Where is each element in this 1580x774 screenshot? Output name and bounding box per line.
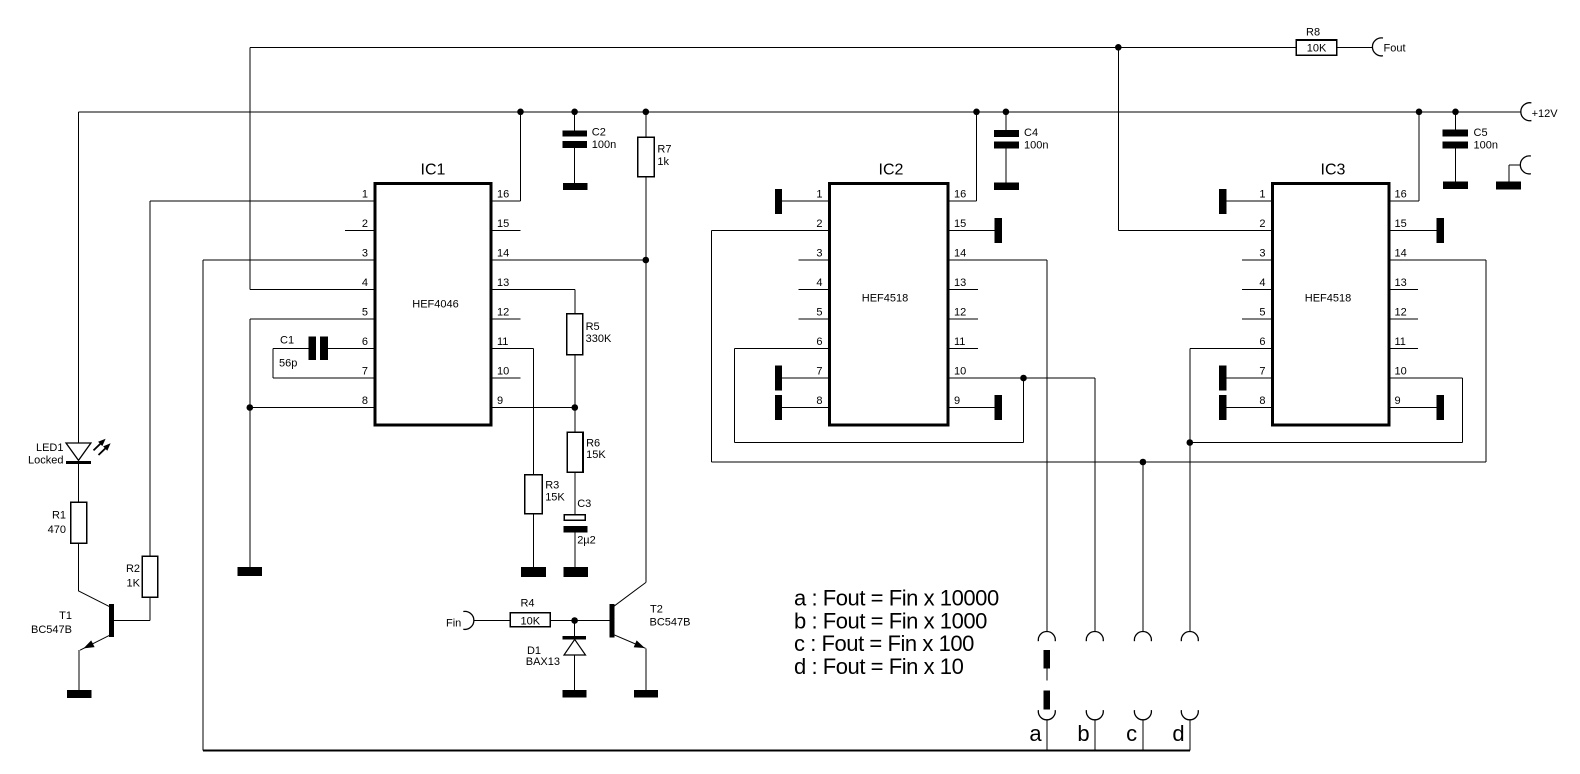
wire R7 to T2 collector bbox=[645, 178, 647, 583]
svg-text:2: 2 bbox=[816, 218, 822, 230]
resistor R8 bbox=[1296, 40, 1337, 55]
svg-text:BAX13: BAX13 bbox=[526, 656, 560, 668]
svg-text:IC3: IC3 bbox=[1321, 162, 1346, 179]
svg-text:13: 13 bbox=[497, 277, 509, 289]
wire IC2 pin7 bbox=[782, 377, 828, 379]
node rail / IC2 pin16 bbox=[973, 109, 980, 116]
svg-text:T1: T1 bbox=[59, 610, 72, 622]
IC3 pin7 tie bar bbox=[1219, 366, 1227, 391]
ground C3 bbox=[563, 567, 588, 577]
LED1 bbox=[66, 443, 91, 460]
svg-text:3: 3 bbox=[816, 248, 822, 260]
svg-text:1: 1 bbox=[362, 189, 368, 201]
wire rail to LED1 bbox=[77, 112, 79, 443]
node IC1 pin8 ground junction bbox=[247, 404, 254, 411]
svg-text:1: 1 bbox=[1259, 189, 1265, 201]
IC2 pin 13 stub bbox=[950, 289, 979, 291]
svg-text:b : Fout = Fin x 1000: b : Fout = Fin x 1000 bbox=[794, 608, 987, 633]
wire IC2 pin2 cascade net bbox=[711, 230, 828, 232]
wire terminal a to bottom rail bbox=[1046, 720, 1048, 751]
svg-text:12: 12 bbox=[1395, 307, 1407, 319]
svg-text:10K: 10K bbox=[1307, 43, 1327, 55]
wire IC2 pin6 feedback loop bbox=[734, 348, 828, 350]
svg-text:14: 14 bbox=[1395, 248, 1407, 260]
wire LED1 to R1 bbox=[77, 464, 79, 501]
wire IC2 pin10 to selector b bbox=[950, 377, 1095, 379]
svg-text:Locked: Locked bbox=[28, 455, 63, 467]
svg-text:b: b bbox=[1077, 721, 1089, 746]
wire IC3 pin16 to rail bbox=[1391, 200, 1420, 202]
terminal c upper socket bbox=[1134, 631, 1151, 641]
wire IC1 pin5 to ground bbox=[250, 318, 374, 320]
svg-text:R5: R5 bbox=[586, 321, 600, 333]
svg-text:3: 3 bbox=[362, 248, 368, 260]
wire GND terminal to ground bbox=[1509, 164, 1521, 166]
wire IC3 pin14 from cascade net bbox=[1391, 259, 1487, 261]
IC2 pin9 tie bar bbox=[995, 395, 1002, 420]
wire IC3 pin15 to tie bar bbox=[1391, 230, 1437, 232]
svg-text:16: 16 bbox=[497, 189, 509, 201]
wire R4 to T2 base bbox=[551, 620, 610, 622]
wire C1 right plate to IC1 pin6 bbox=[328, 348, 374, 350]
IC3 pin 4 stub bbox=[1242, 289, 1271, 291]
terminal GND input bbox=[1520, 156, 1531, 174]
wire terminal d to bottom rail bbox=[1189, 720, 1191, 751]
IC1 pin 10 stub bbox=[493, 377, 521, 379]
terminal a lower socket bbox=[1038, 710, 1055, 720]
wire IC3 pin7 bbox=[1227, 377, 1272, 379]
svg-text:10: 10 bbox=[497, 366, 509, 378]
svg-text:3: 3 bbox=[1259, 248, 1265, 260]
wire Fin to R4 bbox=[474, 620, 510, 622]
svg-text:10: 10 bbox=[1395, 366, 1407, 378]
IC2 pin 3 stub bbox=[799, 259, 829, 261]
capacitor C5 100n bbox=[1455, 112, 1457, 130]
svg-text:a: a bbox=[1029, 721, 1042, 746]
node R4 / D1 / T2 base bbox=[571, 617, 578, 624]
wire IC2 pin1 bbox=[782, 200, 828, 202]
svg-text:12: 12 bbox=[954, 307, 966, 319]
svg-text:BC547B: BC547B bbox=[31, 624, 72, 636]
IC1 pin 2 stub bbox=[345, 230, 374, 232]
svg-text:13: 13 bbox=[1395, 277, 1407, 289]
ground D1 bbox=[563, 690, 587, 698]
svg-text:1k: 1k bbox=[657, 156, 669, 168]
svg-text:15: 15 bbox=[497, 218, 509, 230]
chip IC3 HEF4518 bbox=[1273, 184, 1390, 426]
transistor T1 bbox=[109, 604, 114, 637]
resistor R7 bbox=[638, 137, 654, 177]
svg-text:56p: 56p bbox=[279, 357, 297, 369]
svg-text:R2: R2 bbox=[126, 563, 140, 575]
svg-text:11: 11 bbox=[1395, 336, 1406, 348]
wire bottom selector rail bbox=[203, 750, 1190, 752]
svg-text:IC1: IC1 bbox=[421, 162, 446, 179]
svg-text:Fin: Fin bbox=[446, 617, 461, 629]
svg-text:C1: C1 bbox=[280, 334, 294, 346]
ground R3 bbox=[521, 567, 546, 577]
svg-text:7: 7 bbox=[1259, 366, 1265, 378]
capacitor C4 100n bbox=[1005, 112, 1007, 130]
wire branch down to IC3 pin2 bbox=[1117, 47, 1119, 230]
node rail / C2 bbox=[571, 109, 578, 116]
svg-text:C3: C3 bbox=[577, 498, 591, 510]
wire C3 to ground bbox=[574, 533, 576, 567]
svg-text:10: 10 bbox=[954, 366, 966, 378]
node IC3 pin6 / feedback / selector d bbox=[1187, 439, 1194, 446]
terminal d upper socket bbox=[1181, 631, 1198, 641]
wire C1 left plate loop to IC1 pin7 bbox=[273, 348, 308, 350]
svg-text:R1: R1 bbox=[52, 510, 66, 522]
svg-text:14: 14 bbox=[497, 248, 509, 260]
svg-text:2: 2 bbox=[1259, 218, 1265, 230]
wire node to R6 bbox=[574, 408, 576, 432]
wire selector c drop bbox=[1142, 462, 1144, 632]
wire IC3 pin10 feedback loop bbox=[1391, 377, 1463, 379]
svg-text:6: 6 bbox=[816, 336, 822, 348]
wire R8 to Fout bbox=[1338, 46, 1373, 48]
svg-text:d: d bbox=[1172, 721, 1184, 746]
wire IC2 pin8 bbox=[782, 407, 828, 409]
capacitor C2 100n bbox=[574, 112, 576, 131]
wire IC2 pin9 to tie bar bbox=[950, 407, 995, 409]
svg-text:15: 15 bbox=[954, 218, 966, 230]
resistor R2 bbox=[142, 556, 158, 597]
svg-text:4: 4 bbox=[816, 277, 822, 289]
wire IC2 pin16 to rail bbox=[950, 200, 977, 202]
svg-text:10K: 10K bbox=[521, 616, 541, 628]
svg-text:9: 9 bbox=[497, 395, 503, 407]
svg-text:100n: 100n bbox=[1024, 140, 1048, 152]
ground T2 bbox=[634, 690, 658, 698]
IC3 pin 12 stub bbox=[1391, 318, 1419, 320]
svg-text:Fout: Fout bbox=[1384, 43, 1406, 55]
IC2 pin15 tie bar bbox=[995, 218, 1002, 243]
node rail / R7 bbox=[643, 109, 650, 116]
diode D1 BAX13 bbox=[563, 636, 587, 639]
wire terminal b to bottom rail bbox=[1094, 720, 1096, 751]
svg-text:15K: 15K bbox=[545, 492, 565, 504]
terminal b lower socket bbox=[1086, 710, 1103, 720]
chip IC1 HEF4046 bbox=[375, 184, 491, 426]
IC2 pin 11 stub bbox=[950, 348, 979, 350]
svg-text:11: 11 bbox=[954, 336, 965, 348]
IC3 pin15 tie bar bbox=[1436, 218, 1444, 243]
IC3 pin 5 stub bbox=[1242, 318, 1271, 320]
svg-text:C4: C4 bbox=[1024, 127, 1038, 139]
wire IC1 pin16 to rail bbox=[493, 200, 521, 202]
terminal c lower socket bbox=[1134, 710, 1151, 720]
wire R1 to T1 collector bbox=[77, 544, 79, 591]
svg-text:R6: R6 bbox=[586, 438, 600, 450]
terminal d lower socket bbox=[1181, 710, 1198, 720]
svg-text:2: 2 bbox=[362, 218, 368, 230]
wire IC1 pin13 to R5 bbox=[493, 289, 575, 291]
svg-text:330K: 330K bbox=[586, 333, 612, 345]
wire R6 to C3 bbox=[574, 473, 576, 514]
svg-text:LED1: LED1 bbox=[36, 442, 64, 454]
svg-text:100n: 100n bbox=[1474, 140, 1498, 152]
transistor T2 bbox=[609, 604, 614, 638]
node rail / IC1 pin16 bbox=[517, 109, 524, 116]
svg-text:+12V: +12V bbox=[1532, 108, 1559, 120]
node top net / IC3 pin2 branch bbox=[1115, 44, 1122, 51]
ground C5 bbox=[1443, 182, 1468, 189]
svg-text:9: 9 bbox=[954, 395, 960, 407]
wire IC2 pin14 to selector a bbox=[950, 259, 1047, 261]
svg-text:16: 16 bbox=[1395, 189, 1407, 201]
wire R5 to node bbox=[574, 355, 576, 407]
wire IC1 pin8 bbox=[250, 407, 374, 409]
IC1 pin 12 stub bbox=[493, 318, 521, 320]
svg-text:6: 6 bbox=[1259, 336, 1265, 348]
terminal Fout bbox=[1372, 38, 1383, 56]
wire IC3 pin9 to tie bar bbox=[1391, 407, 1437, 409]
svg-text:T2: T2 bbox=[650, 604, 663, 616]
wire R3 to ground bbox=[533, 515, 535, 567]
svg-text:13: 13 bbox=[954, 277, 966, 289]
ground C2 bbox=[563, 183, 588, 190]
wire rail to R7 bbox=[645, 112, 647, 137]
terminal b upper socket bbox=[1086, 631, 1103, 641]
svg-text:8: 8 bbox=[816, 395, 822, 407]
IC3 pin8 tie bar bbox=[1219, 395, 1227, 420]
IC2 pin7 tie bar bbox=[775, 366, 782, 391]
svg-text:c : Fout = Fin x 100: c : Fout = Fin x 100 bbox=[794, 631, 974, 656]
svg-text:c: c bbox=[1126, 721, 1137, 746]
svg-text:12: 12 bbox=[497, 307, 509, 319]
svg-text:5: 5 bbox=[1259, 307, 1265, 319]
ground C4 bbox=[994, 183, 1019, 190]
svg-text:IC2: IC2 bbox=[879, 162, 904, 179]
wire IC1 pin9 bbox=[493, 407, 575, 409]
ground GND terminal bbox=[1496, 182, 1521, 190]
terminal a upper socket bbox=[1038, 631, 1055, 641]
wire node to D1 bbox=[574, 621, 576, 637]
wire IC1 pin3 to selector rail bbox=[203, 259, 374, 261]
resistor R1 bbox=[71, 502, 87, 543]
svg-text:5: 5 bbox=[362, 307, 368, 319]
svg-text:4: 4 bbox=[1259, 277, 1265, 289]
svg-text:R4: R4 bbox=[520, 597, 534, 609]
chip IC2 HEF4518 bbox=[830, 184, 949, 426]
svg-text:5: 5 bbox=[816, 307, 822, 319]
svg-text:16: 16 bbox=[954, 189, 966, 201]
ground IC1 pins 5+8 bbox=[237, 567, 262, 576]
svg-text:4: 4 bbox=[362, 277, 368, 289]
capacitor C3 2u2 bbox=[564, 515, 585, 520]
svg-text:HEF4046: HEF4046 bbox=[412, 298, 458, 310]
svg-text:d : Fout = Fin x 10: d : Fout = Fin x 10 bbox=[794, 654, 964, 679]
svg-text:1: 1 bbox=[816, 189, 822, 201]
capacitor C1 56p bbox=[308, 337, 316, 360]
svg-text:8: 8 bbox=[362, 395, 368, 407]
wire IC2 pin15 to tie bar bbox=[950, 230, 995, 232]
node rail / IC3 pin16 bbox=[1416, 109, 1423, 116]
wire IC1 pin4 to top net bbox=[250, 289, 374, 291]
IC3 pin 3 stub bbox=[1242, 259, 1271, 261]
wire +12V supply rail bbox=[78, 111, 1521, 113]
resistor R3 bbox=[525, 475, 542, 514]
wire R2 to T1 base bbox=[149, 598, 151, 620]
IC3 pin9 tie bar bbox=[1436, 395, 1444, 420]
resistor R5 bbox=[567, 314, 583, 355]
svg-text:R3: R3 bbox=[545, 480, 559, 492]
svg-text:15: 15 bbox=[1395, 218, 1407, 230]
terminal Fin bbox=[463, 611, 474, 629]
wire T1 emitter to ground bbox=[78, 650, 80, 690]
svg-text:11: 11 bbox=[497, 336, 508, 348]
wire IC3 pin6 to selector d bbox=[1190, 348, 1271, 350]
node IC1 pin14 / R7 bbox=[643, 257, 650, 264]
node cascade / selector c bbox=[1140, 459, 1147, 466]
wire IC1 pin1 to R2 bbox=[150, 200, 374, 202]
wire IC3 pin8 bbox=[1227, 407, 1272, 409]
wire IC1 pin11 to R3 bbox=[493, 348, 534, 350]
terminal +12V bbox=[1521, 103, 1532, 121]
svg-text:HEF4518: HEF4518 bbox=[1305, 292, 1351, 304]
resistor R4 bbox=[510, 613, 550, 627]
svg-text:7: 7 bbox=[362, 366, 368, 378]
wire IC3 pin1 bbox=[1227, 200, 1272, 202]
node rail / C5 bbox=[1452, 109, 1459, 116]
svg-text:1K: 1K bbox=[127, 578, 141, 590]
svg-text:9: 9 bbox=[1395, 395, 1401, 407]
IC1 pin 15 stub bbox=[493, 230, 521, 232]
IC2 pin 4 stub bbox=[799, 289, 829, 291]
svg-text:100n: 100n bbox=[592, 139, 616, 151]
svg-text:470: 470 bbox=[48, 524, 66, 536]
IC2 pin 5 stub bbox=[799, 318, 829, 320]
svg-text:C2: C2 bbox=[592, 127, 606, 139]
wire T2 emitter to ground bbox=[645, 648, 647, 690]
svg-text:8: 8 bbox=[1259, 395, 1265, 407]
resistor R6 bbox=[567, 432, 583, 472]
IC3 pin 11 stub bbox=[1391, 348, 1419, 350]
svg-text:7: 7 bbox=[816, 366, 822, 378]
svg-text:HEF4518: HEF4518 bbox=[862, 292, 908, 304]
wire terminal c to bottom rail bbox=[1142, 720, 1144, 751]
ground T1 bbox=[67, 690, 92, 698]
IC3 pin 13 stub bbox=[1391, 289, 1419, 291]
svg-text:15K: 15K bbox=[586, 449, 606, 461]
IC2 pin1 tie bar bbox=[775, 189, 782, 214]
node IC1 pin9 / R5 / R6 bbox=[572, 404, 579, 411]
IC2 pin 12 stub bbox=[950, 318, 979, 320]
wire IC1 pin14 bbox=[493, 259, 646, 261]
svg-text:6: 6 bbox=[362, 336, 368, 348]
IC3 pin1 tie bar bbox=[1219, 189, 1227, 214]
wire top net pin4 to R8 bbox=[250, 46, 1296, 48]
svg-text:2µ2: 2µ2 bbox=[577, 535, 596, 547]
svg-text:R7: R7 bbox=[657, 143, 671, 155]
svg-text:C5: C5 bbox=[1474, 127, 1488, 139]
svg-text:a : Fout = Fin x 10000: a : Fout = Fin x 10000 bbox=[794, 586, 999, 611]
IC2 pin8 tie bar bbox=[775, 395, 782, 420]
svg-text:R8: R8 bbox=[1306, 27, 1320, 39]
jumper link in position a bbox=[1044, 650, 1051, 669]
node rail / C4 bbox=[1003, 109, 1010, 116]
svg-text:BC547B: BC547B bbox=[650, 617, 691, 629]
svg-text:14: 14 bbox=[954, 248, 966, 260]
wire D1 to ground bbox=[574, 655, 576, 690]
node IC2 pin10 / feedback bbox=[1020, 375, 1027, 382]
